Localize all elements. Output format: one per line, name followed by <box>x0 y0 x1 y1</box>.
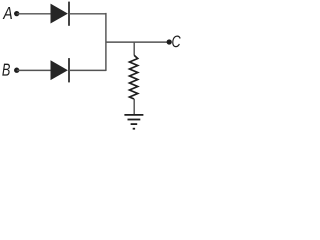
wire resistor to ground <box>133 99 135 115</box>
wire B input <box>17 69 51 71</box>
diode D1 cathode bar <box>68 2 70 26</box>
diode D2 anode triangle <box>51 60 68 80</box>
node C label <box>172 36 180 48</box>
ground bar 1 <box>124 114 143 116</box>
wire D2 to bus <box>69 69 106 71</box>
diode D2 cathode bar <box>68 58 70 82</box>
wire A input <box>17 13 51 15</box>
node B label <box>2 64 10 76</box>
terminal dot B <box>14 68 19 73</box>
wire resistor stub <box>133 42 135 55</box>
ground bar 4 <box>133 128 135 130</box>
diode D1 anode triangle <box>51 4 68 24</box>
terminal dot A <box>14 11 19 16</box>
resistor R1 zigzag <box>130 55 138 99</box>
wire vertical bus <box>105 13 107 71</box>
terminal dot C <box>167 39 172 44</box>
node A label <box>3 7 12 19</box>
ground bar 2 <box>128 119 141 121</box>
wire output to C <box>106 41 169 43</box>
ground bar 3 <box>131 123 138 125</box>
wire D1 to bus <box>69 13 106 15</box>
